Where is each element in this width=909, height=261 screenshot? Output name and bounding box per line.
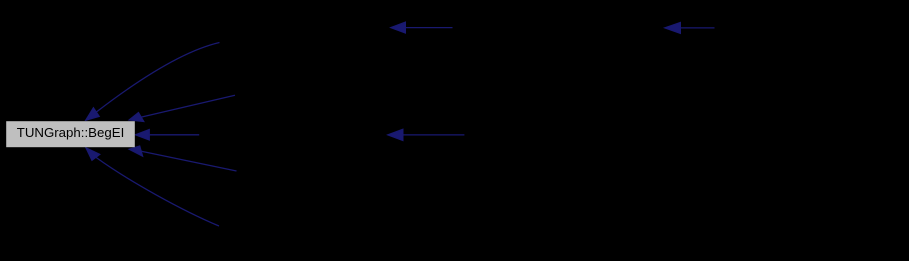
node Node3 (invisible caller, row1 col3) <box>453 15 665 41</box>
edge E1: Node2 -> TUNGraph::BegEI (curved) <box>86 43 220 121</box>
edge E8: Node7 -> Node6 (horizontal arrow, row3) <box>388 129 465 141</box>
svg-text:TUNGraph::BegEI: TUNGraph::BegEI <box>17 125 125 140</box>
node Node8 (invisible caller, row4) <box>237 171 417 197</box>
node Node5 (invisible caller, row2) <box>235 69 415 95</box>
node Node6 (invisible caller, row3 col2) <box>199 122 388 148</box>
edge E4: Node8 -> TUNGraph::BegEI <box>129 146 237 171</box>
node TUNGraph::BegEI (current node, grey) <box>6 121 135 147</box>
edge E3: Node6 -> TUNGraph::BegEI (horizontal) <box>135 129 199 140</box>
edge E6: Node3 -> Node2 (horizontal arrow, row1) <box>391 22 453 33</box>
svg-text:TUNGraph::GetEI: TUNGraph::GetEI <box>252 20 358 35</box>
svg-text:TSnap::GetBiCon: TSnap::GetBiCon <box>512 127 616 142</box>
svg-text:TSnap::GetMxBiCon: TSnap::GetMxBiCon <box>232 127 354 142</box>
svg-text:TSnap::GetTriads: TSnap::GetTriads <box>506 20 611 35</box>
edge E5: Node9 -> TUNGraph::BegEI (curved) <box>86 148 219 226</box>
node Node2 (invisible caller, row1 col2) <box>220 15 391 41</box>
node Node4 (invisible caller, row1 col4) <box>715 15 908 41</box>
svg-text:TSnap::PrintInfo: TSnap::PrintInfo <box>261 231 357 246</box>
svg-text:TSnap::GetEdgeBridges: TSnap::GetEdgeBridges <box>254 176 398 191</box>
node Node9 (invisible caller, row5) <box>219 226 399 252</box>
edge E7: Node4 -> Node3 (horizontal arrow, row1 right) <box>665 22 715 33</box>
node Node7 (invisible caller, row3 col3) <box>465 122 665 148</box>
svg-text:TSnap::Get1CnCom: TSnap::Get1CnCom <box>265 74 385 89</box>
svg-text:TSnap::GetClustCf: TSnap::GetClustCf <box>755 20 867 35</box>
edge E2: Node5 -> TUNGraph::BegEI <box>129 95 235 121</box>
